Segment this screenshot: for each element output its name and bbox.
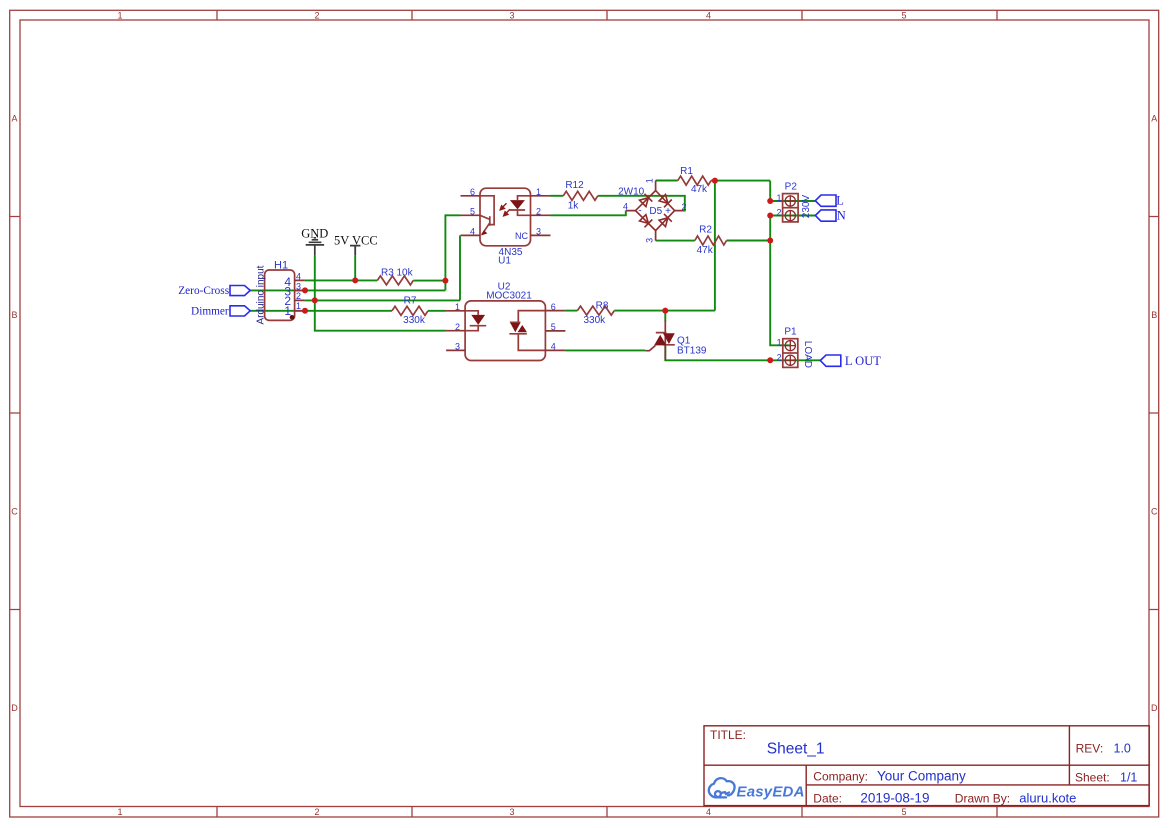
svg-text:C: C	[1151, 507, 1158, 517]
svg-text:Drawn By:: Drawn By:	[955, 791, 1010, 805]
wire U2 pin6 to R8	[565, 310, 577, 312]
svg-text:4: 4	[706, 807, 711, 817]
svg-text:R1: R1	[680, 166, 693, 177]
wire triac MT1 to P1 pin2 and L OUT flag	[665, 346, 820, 361]
border column ticks bottom	[217, 807, 997, 818]
svg-text:Date:: Date:	[813, 791, 842, 805]
svg-text:2: 2	[536, 207, 541, 217]
svg-text:47k: 47k	[697, 245, 714, 256]
wire L rail corner down to P2 pin1 and L flag	[770, 181, 815, 201]
wire R8 node to rail	[614, 310, 715, 312]
connector P1 LOAD	[777, 327, 814, 368]
svg-text:MOC3021: MOC3021	[486, 291, 532, 302]
wire R7 right to U2 pin1	[428, 310, 446, 312]
ground symbol GND	[301, 226, 328, 255]
resistor R12	[563, 180, 598, 212]
wire U1 pin2 to bridge pin4	[551, 211, 626, 216]
svg-text:10k: 10k	[397, 267, 414, 278]
optotriac U2 MOC3021	[446, 281, 565, 360]
svg-text:Dimmer: Dimmer	[191, 306, 229, 318]
svg-text:1: 1	[777, 338, 782, 348]
svg-text:2W10: 2W10	[618, 187, 645, 198]
bridge rectifier D5 2W10	[618, 178, 686, 243]
wire R1 right to L rail corner	[711, 180, 770, 182]
wire triac node drop	[664, 311, 666, 322]
svg-text:Company:: Company:	[813, 769, 868, 783]
svg-text:R3: R3	[381, 267, 394, 278]
net flag Dimmer	[191, 306, 250, 318]
svg-text:5: 5	[901, 807, 906, 817]
svg-text:EasyEDA: EasyEDA	[737, 784, 805, 801]
resistor R2	[695, 225, 727, 257]
title block row divider 1	[704, 764, 1149, 766]
wire L rail down to triac node	[714, 181, 716, 311]
U2 internal triac	[509, 311, 545, 351]
svg-text:1: 1	[645, 178, 655, 183]
svg-text:Your Company: Your Company	[877, 769, 966, 784]
wire H1 pin2 to U1 pin4 emitter	[305, 235, 460, 300]
wire bridge pin1 to R1	[656, 180, 678, 182]
triac Q1 BT139	[645, 321, 707, 361]
svg-text:R7: R7	[404, 296, 417, 307]
svg-text:D: D	[11, 703, 18, 713]
resistor R8	[577, 301, 614, 326]
D5 diamond edges	[636, 191, 675, 231]
D5 diode bottom-right	[659, 218, 668, 227]
svg-text:330k: 330k	[403, 315, 426, 326]
svg-text:D5: D5	[649, 206, 662, 217]
resistor R1	[678, 166, 711, 195]
svg-text:2: 2	[455, 322, 460, 332]
Q1 gate lead	[645, 346, 655, 351]
connector H1	[256, 259, 305, 324]
svg-text:Sheet:: Sheet:	[1075, 770, 1110, 784]
svg-text:6: 6	[470, 187, 475, 197]
title block rev column divider	[1068, 726, 1070, 785]
svg-text:A: A	[1151, 114, 1157, 124]
svg-text:Arduino input: Arduino input	[256, 265, 267, 324]
svg-text:3: 3	[455, 342, 460, 352]
U2 internal LED	[465, 311, 486, 331]
svg-text:B: B	[11, 310, 17, 320]
wire net GND: symbol down and over to U2 pin2	[315, 255, 446, 330]
svg-text:1: 1	[455, 302, 460, 312]
wire U2 pin4 to triac gate	[565, 349, 645, 351]
wire N rail from P2 pin2 down	[770, 216, 815, 346]
svg-text:4: 4	[706, 10, 711, 20]
svg-text:2: 2	[681, 202, 686, 212]
svg-text:2: 2	[776, 208, 781, 218]
svg-text:R2: R2	[699, 225, 712, 236]
svg-text:3: 3	[509, 10, 514, 20]
svg-text:R8: R8	[596, 301, 609, 312]
svg-text:aluru.kote: aluru.kote	[1019, 790, 1076, 805]
svg-text:C: C	[11, 507, 18, 517]
svg-text:330k: 330k	[583, 315, 606, 326]
title block logo column divider	[805, 765, 807, 805]
EasyEDA logo cloud	[709, 778, 735, 797]
resistor R3	[377, 267, 413, 285]
svg-text:2: 2	[314, 10, 319, 20]
power flag 5V VCC	[334, 234, 378, 256]
svg-text:1.0: 1.0	[1114, 741, 1131, 755]
svg-text:4: 4	[296, 271, 301, 281]
wire bridge pin3 to R2	[656, 240, 695, 242]
U1 pin stubs	[461, 196, 551, 236]
wire net Dimmer: flag through H1 pin1 to R7	[250, 310, 392, 312]
svg-text:TITLE:: TITLE:	[710, 728, 746, 742]
svg-text:1: 1	[776, 193, 781, 203]
D5 diode top-left	[640, 198, 649, 207]
svg-text:2019-08-19: 2019-08-19	[860, 790, 929, 805]
border row ticks left	[10, 217, 20, 610]
svg-text:D: D	[1151, 703, 1158, 713]
svg-text:2: 2	[296, 291, 301, 301]
svg-text:LOAD: LOAD	[802, 341, 813, 368]
svg-text:1/1: 1/1	[1120, 770, 1137, 784]
svg-text:Sheet_1: Sheet_1	[767, 741, 825, 758]
svg-text:4: 4	[551, 342, 556, 352]
junction dots	[302, 178, 773, 364]
svg-text:L OUT: L OUT	[845, 354, 881, 368]
svg-text:6: 6	[551, 302, 556, 312]
svg-text:L: L	[836, 194, 844, 208]
U2 pin stubs	[446, 311, 565, 351]
wire collector node riser to U1 pin5	[445, 215, 460, 290]
svg-text:1: 1	[536, 187, 541, 197]
wire net VCC: H1 pin4 to R3	[305, 279, 378, 281]
wire net Zero-Cross: flag through H1 pin3 to node riser	[250, 289, 445, 291]
wire U1 pin1 to R12	[551, 195, 564, 197]
border column ticks top	[217, 10, 997, 20]
net flag L	[815, 194, 844, 208]
D5 pin stubs	[626, 181, 683, 241]
svg-text:3: 3	[509, 807, 514, 817]
svg-text:R12: R12	[565, 180, 584, 191]
svg-text:Zero-Cross: Zero-Cross	[178, 285, 229, 297]
wire R2 right to N rail	[727, 240, 771, 242]
border row ticks right	[1149, 217, 1159, 610]
net flag N	[815, 208, 846, 222]
wire R3 right to collector node	[413, 280, 445, 282]
svg-text:5: 5	[901, 10, 906, 20]
wire VCC symbol drop	[354, 255, 356, 280]
svg-text:1: 1	[284, 304, 291, 318]
svg-text:+: +	[665, 206, 671, 217]
U1 internal phototransistor	[480, 196, 494, 236]
title block row divider 2	[806, 784, 1149, 786]
svg-text:A: A	[11, 114, 17, 124]
net flag Zero-Cross	[178, 285, 250, 297]
svg-text:REV:: REV:	[1076, 741, 1104, 755]
D5 diode bottom-left	[640, 215, 649, 224]
net flag L OUT	[820, 354, 881, 368]
svg-text:3: 3	[536, 227, 541, 237]
svg-text:230V: 230V	[801, 195, 812, 219]
svg-text:1k: 1k	[568, 201, 580, 212]
U1 LED light arrows	[500, 203, 510, 216]
svg-text:5: 5	[470, 207, 475, 217]
svg-text:N: N	[837, 208, 846, 222]
title block outline	[704, 726, 1149, 806]
svg-text:P2: P2	[785, 181, 798, 192]
svg-text:U1: U1	[498, 256, 511, 267]
svg-text:3: 3	[296, 281, 301, 291]
D5 diode top-right	[659, 195, 668, 204]
svg-text:1: 1	[117, 10, 122, 20]
svg-text:B: B	[1151, 310, 1157, 320]
svg-text:2: 2	[777, 352, 782, 362]
svg-text:BT139: BT139	[677, 346, 707, 357]
svg-text:2: 2	[314, 807, 319, 817]
svg-text:1: 1	[117, 807, 122, 817]
connector P2 230V	[776, 181, 811, 222]
svg-text:5: 5	[551, 322, 556, 332]
svg-text:4: 4	[623, 202, 628, 212]
svg-text:3: 3	[645, 238, 655, 243]
wire R12 right to bridge pin2	[598, 196, 685, 211]
optocoupler U1 4N35	[461, 187, 551, 267]
svg-text:47k: 47k	[691, 184, 708, 195]
svg-text:-: -	[638, 206, 641, 217]
resistor R7	[392, 296, 428, 326]
svg-text:NC: NC	[515, 231, 528, 241]
U1 internal LED	[510, 196, 531, 216]
svg-text:4: 4	[470, 227, 475, 237]
svg-text:H1: H1	[274, 259, 288, 271]
svg-text:P1: P1	[784, 327, 797, 338]
svg-text:1: 1	[296, 301, 301, 311]
